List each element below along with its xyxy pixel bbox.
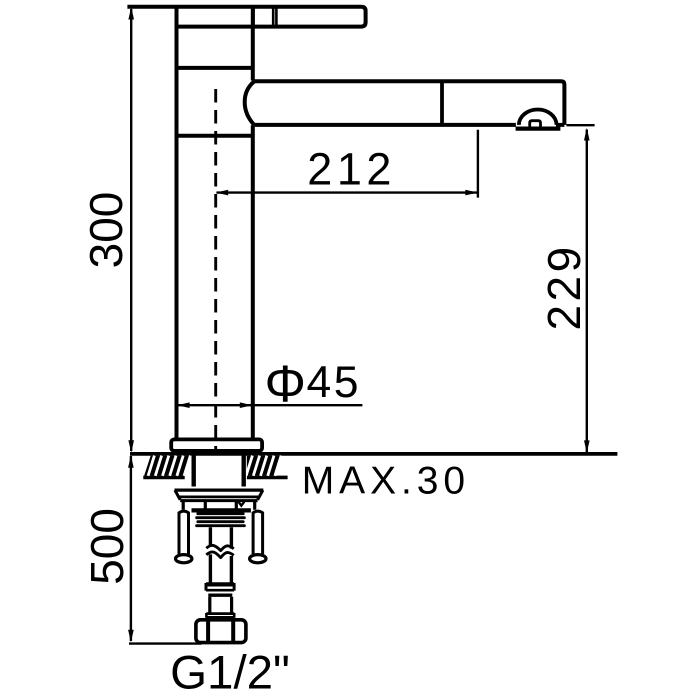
svg-text:500: 500 (81, 508, 133, 585)
svg-text:229: 229 (538, 243, 590, 330)
svg-text:G1/2": G1/2" (170, 646, 290, 699)
svg-text:300: 300 (80, 192, 132, 269)
svg-text:212: 212 (307, 144, 396, 195)
svg-text:MAX.30: MAX.30 (302, 460, 470, 503)
svg-text:Φ45: Φ45 (265, 356, 362, 414)
